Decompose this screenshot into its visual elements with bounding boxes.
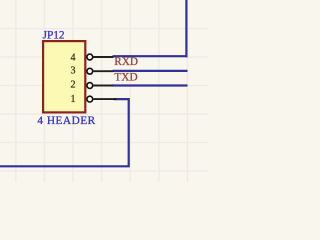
wire from pin 2	[113, 84, 188, 86]
svg-text:RXD: RXD	[114, 56, 138, 68]
svg-text:TXD: TXD	[114, 71, 137, 83]
wire from pin 1: right, down, then left to sheet edge	[0, 99, 129, 166]
designator JP12	[43, 29, 65, 41]
connector JP12 body	[43, 41, 85, 112]
wire TXD net: horizontal from pin 3	[113, 70, 188, 72]
svg-text:3: 3	[71, 65, 76, 76]
svg-text:4 HEADER: 4 HEADER	[37, 115, 95, 127]
net label RXD	[114, 56, 138, 68]
pin 2	[71, 80, 114, 91]
wire RXD net: horizontal from pin 4 then up to top edge	[113, 0, 188, 57]
pin 1	[71, 94, 117, 105]
pin 4	[71, 52, 114, 63]
comment 4 HEADER	[37, 115, 95, 127]
svg-text:1: 1	[71, 94, 76, 105]
svg-text:4: 4	[71, 52, 76, 63]
svg-text:2: 2	[71, 80, 76, 91]
net label TXD	[114, 71, 137, 83]
svg-text:JP12: JP12	[43, 29, 65, 41]
pin 3	[71, 65, 114, 76]
sheet background	[0, 0, 208, 182]
